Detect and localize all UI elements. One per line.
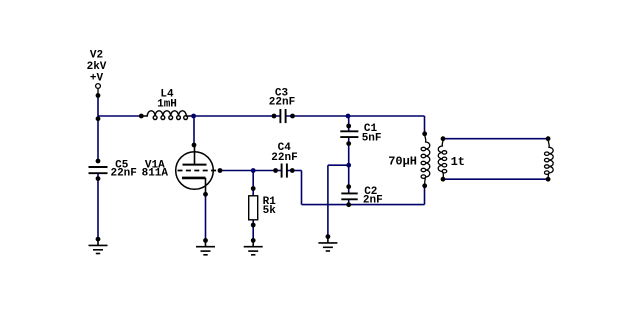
svg-text:2kV: 2kV — [87, 61, 107, 73]
svg-text:1t: 1t — [451, 155, 465, 169]
svg-text:1mH: 1mH — [157, 99, 177, 111]
svg-text:5nF: 5nF — [362, 132, 382, 144]
svg-text:22nF: 22nF — [110, 168, 136, 180]
svg-text:70µH: 70µH — [388, 155, 417, 169]
svg-text:22nF: 22nF — [269, 96, 295, 108]
svg-text:V2: V2 — [90, 50, 103, 62]
svg-text:22nF: 22nF — [271, 152, 297, 164]
svg-text:2nF: 2nF — [363, 195, 383, 207]
svg-text:811A: 811A — [142, 168, 169, 180]
svg-text:+V: +V — [90, 72, 104, 84]
svg-text:5k: 5k — [263, 205, 277, 217]
